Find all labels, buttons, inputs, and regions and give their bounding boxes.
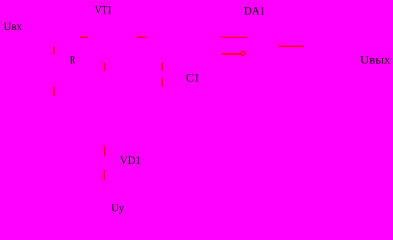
wire: DA1 output lead to Uvyx — [279, 45, 304, 47]
svg-text:VT1: VT1 — [95, 5, 113, 17]
wire: capacitor C1 lower lead — [161, 78, 163, 87]
wire: capacitor C1 upper lead — [161, 62, 163, 70]
svg-text:Uу: Uу — [111, 203, 124, 215]
svg-text:C1: C1 — [186, 73, 200, 85]
svg-text:Uвых: Uвых — [360, 54, 391, 66]
wire: input lead segment to VT1 base — [80, 36, 88, 38]
wire: vertical lead above resistor R — [53, 46, 55, 54]
wire: diode VD1 anode vertical lead — [104, 146, 106, 156]
wire: diode VD1 cathode vertical lead to Uy — [103, 170, 105, 180]
svg-text:R: R — [70, 54, 76, 66]
wire: DA1 non-inverting input lead — [221, 36, 247, 38]
svg-text:DA1: DA1 — [244, 5, 266, 17]
wire: VT1 emitter vertical lead — [103, 63, 105, 71]
svg-text:VD1: VD1 — [120, 155, 141, 167]
wire: VT1 collector row segment — [137, 36, 147, 38]
wire: vertical lead below resistor R — [53, 87, 55, 96]
wire: DA1 inverting input lead — [222, 53, 241, 55]
op-amp DA1 inverting input bubble — [241, 52, 245, 56]
svg-text:Uвх: Uвх — [4, 21, 23, 33]
